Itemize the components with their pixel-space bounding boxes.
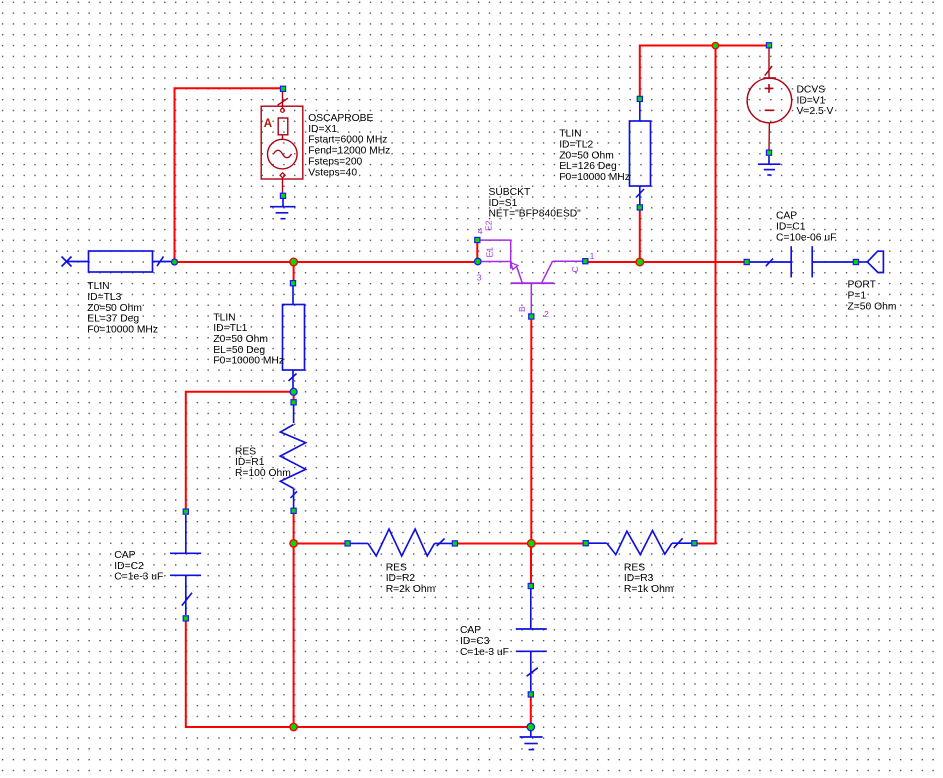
capacitor C1 [750,246,854,277]
pin node R2 left [345,541,350,546]
svg-text:R=1k Ohm: R=1k Ohm [624,584,674,595]
TLIN TL3 [62,251,172,272]
wire emitter pin link [476,242,478,259]
svg-text:V=2.5 V: V=2.5 V [797,106,834,117]
svg-text:R=100 Ohm: R=100 Ohm [235,468,291,479]
svg-text:TLIN: TLIN [213,312,235,323]
svg-text:EL=37 Deg: EL=37 Deg [87,314,139,325]
pin node oscaprobe bottom [280,193,285,198]
pin node TL2 bottom [637,205,642,210]
TLIN TL2 [630,101,651,205]
C3 labels [460,625,509,658]
svg-text:ID=C3: ID=C3 [460,636,490,647]
svg-text:F0=10000 MHz: F0=10000 MHz [87,325,158,336]
svg-text:Z=50 Ohm: Z=50 Ohm [848,301,897,312]
svg-text:RES: RES [386,562,407,573]
wire base drop [530,318,532,544]
wire top-left from oscaprobe to main line [175,88,281,262]
svg-text:EL=126 Deg: EL=126 Deg [559,161,617,172]
capacitor C3 [516,589,547,691]
svg-text:B: B [517,306,527,312]
pin node C2 bottom [183,616,188,621]
R2 labels [386,562,436,595]
svg-text:Fstart=6000 MHz: Fstart=6000 MHz [308,135,387,146]
resistor R3 [589,531,692,555]
R3 labels [624,562,674,595]
wire main input line [175,261,476,263]
junction node TL1 bottom [290,388,297,395]
svg-text:P=1: P=1 [848,290,867,301]
svg-text:Fsteps=200: Fsteps=200 [308,157,362,168]
svg-text:Z0=50 Ohm: Z0=50 Ohm [213,334,268,345]
wire C2 bottom rail [186,621,531,727]
svg-text:R=2k Ohm: R=2k Ohm [386,584,436,595]
svg-text:Z0=50 Ohm: Z0=50 Ohm [87,303,142,314]
wire R1 bottom link [293,512,295,543]
junction node at collector [636,258,644,266]
svg-text:Fend=12000 MHz: Fend=12000 MHz [308,146,390,157]
svg-text:ID=V1: ID=V1 [797,95,826,106]
svg-text:TLIN: TLIN [87,281,109,292]
port labels [848,280,897,313]
svg-text:2: 2 [544,309,549,319]
svg-text:SUBCKT: SUBCKT [489,187,531,198]
svg-text:RES: RES [624,562,645,573]
junction node bias mid [528,540,536,548]
pin node DCVS plus [766,43,771,48]
pin node DCVS minus [766,150,771,155]
svg-text:ID=X1: ID=X1 [308,124,337,135]
pin node R1 top [291,400,296,405]
svg-text:PORT: PORT [848,280,877,291]
ground below DCVS [758,156,781,175]
svg-text:Z0=50 Ohm: Z0=50 Ohm [559,150,614,161]
junction node at 293,262 [290,258,298,266]
wire TL2 top rail [640,46,769,100]
wire branch to C2 [186,392,294,509]
svg-text:C=10e-06 uF: C=10e-06 uF [776,233,836,244]
svg-text:CAP: CAP [114,550,135,561]
pin node TL2 top [637,96,642,101]
pin node R2 right [452,541,457,546]
DCVS labels [797,85,834,118]
svg-text:ID=R1: ID=R1 [235,457,265,468]
junction node at emitter [475,258,482,265]
svg-text:1: 1 [590,251,595,261]
TL2 labels [559,129,630,183]
subckt S1 transistor [481,240,583,313]
junction node bias left [290,540,297,547]
svg-text:ID=R3: ID=R3 [624,573,654,584]
svg-text:ID=C2: ID=C2 [114,561,144,572]
svg-text:TLIN: TLIN [559,129,581,140]
oscaprobe X1 [261,92,303,193]
wire bias junction to bottom rail [293,543,295,727]
pin node TL1 top [290,281,295,286]
R1 labels [235,446,291,479]
resistor R1 [280,405,306,508]
resistor R2 [351,529,452,556]
wire C3 top link [530,543,532,583]
subckt labels [489,187,582,220]
wire TL1 junction to TL1 [293,262,295,281]
C2 labels [114,550,163,583]
pin node R1 bottom [291,508,296,513]
svg-text:ID=TL1: ID=TL1 [213,323,247,334]
svg-text:E1: E1 [485,247,495,258]
TL1 labels [213,312,284,366]
svg-text:C=1e-3 uF: C=1e-3 uF [114,572,163,583]
ground bottom rail [520,727,543,750]
svg-text:ID=R2: ID=R2 [386,573,416,584]
pin node oscaprobe top [280,86,285,91]
svg-text:EL=50 Deg: EL=50 Deg [213,345,265,356]
svg-text:CAP: CAP [460,625,481,636]
svg-text:C: C [570,266,580,272]
svg-text:ID=TL3: ID=TL3 [87,292,121,303]
svg-text:E2: E2 [484,220,494,231]
pin node C1 right [853,259,858,264]
C1 labels [776,211,836,244]
TLIN TL1 [283,285,305,389]
junction node top rail [712,42,718,48]
svg-text:A: A [264,118,272,130]
svg-text:F0=10000 MHz: F0=10000 MHz [559,172,630,183]
pin node R3 left [583,541,588,546]
svg-text:CAP: CAP [776,211,797,222]
pin node subckt 2 [529,314,534,319]
svg-text:3: 3 [477,272,482,282]
wire right drop from top rail to R3 [694,46,715,544]
svg-text:ID=TL2: ID=TL2 [559,139,593,150]
wire bias row R3 left [531,543,585,545]
wire bias row R2 left [294,543,348,545]
wire TL1 bottom to junction [293,394,295,400]
svg-text:RES: RES [235,446,256,457]
svg-text:C=1e-3 uF: C=1e-3 uF [460,647,509,658]
DCVS V1 [747,49,792,151]
port P1 [859,251,884,272]
wire collector line [586,261,747,263]
pin node C3 bottom [528,692,533,697]
wire bias row R2 right [455,543,531,545]
subckt pin labels [477,220,595,319]
capacitor C2 [170,515,201,615]
svg-text:ID=C1: ID=C1 [776,222,806,233]
pin node C2 top [183,509,188,514]
oscaprobe labels [308,113,390,178]
pin node subckt 4 [475,237,480,242]
svg-text:OSCAPROBE: OSCAPROBE [308,113,373,124]
pin node subckt 1 [583,259,588,264]
junction node at 174,262 [172,259,178,265]
pin node C3 top [528,583,533,588]
svg-text:NET="BFP840ESD": NET="BFP840ESD" [489,209,582,220]
svg-text:DCVS: DCVS [797,85,826,96]
junction node bottom rail [527,723,534,730]
wire C3 bottom link [530,697,532,727]
svg-text:ID=S1: ID=S1 [489,198,518,209]
pin node C1 left [744,259,749,264]
ground below oscaprobe [270,199,296,219]
TL3 labels [87,281,158,336]
svg-text:4: 4 [478,226,483,236]
wire TL2 bottom to collector [639,209,641,262]
junction node bottom rail left [290,723,297,730]
svg-text:Vsteps=40: Vsteps=40 [308,167,357,178]
svg-text:F0=10000 MHz: F0=10000 MHz [213,356,284,367]
pin node R3 right [692,541,697,546]
